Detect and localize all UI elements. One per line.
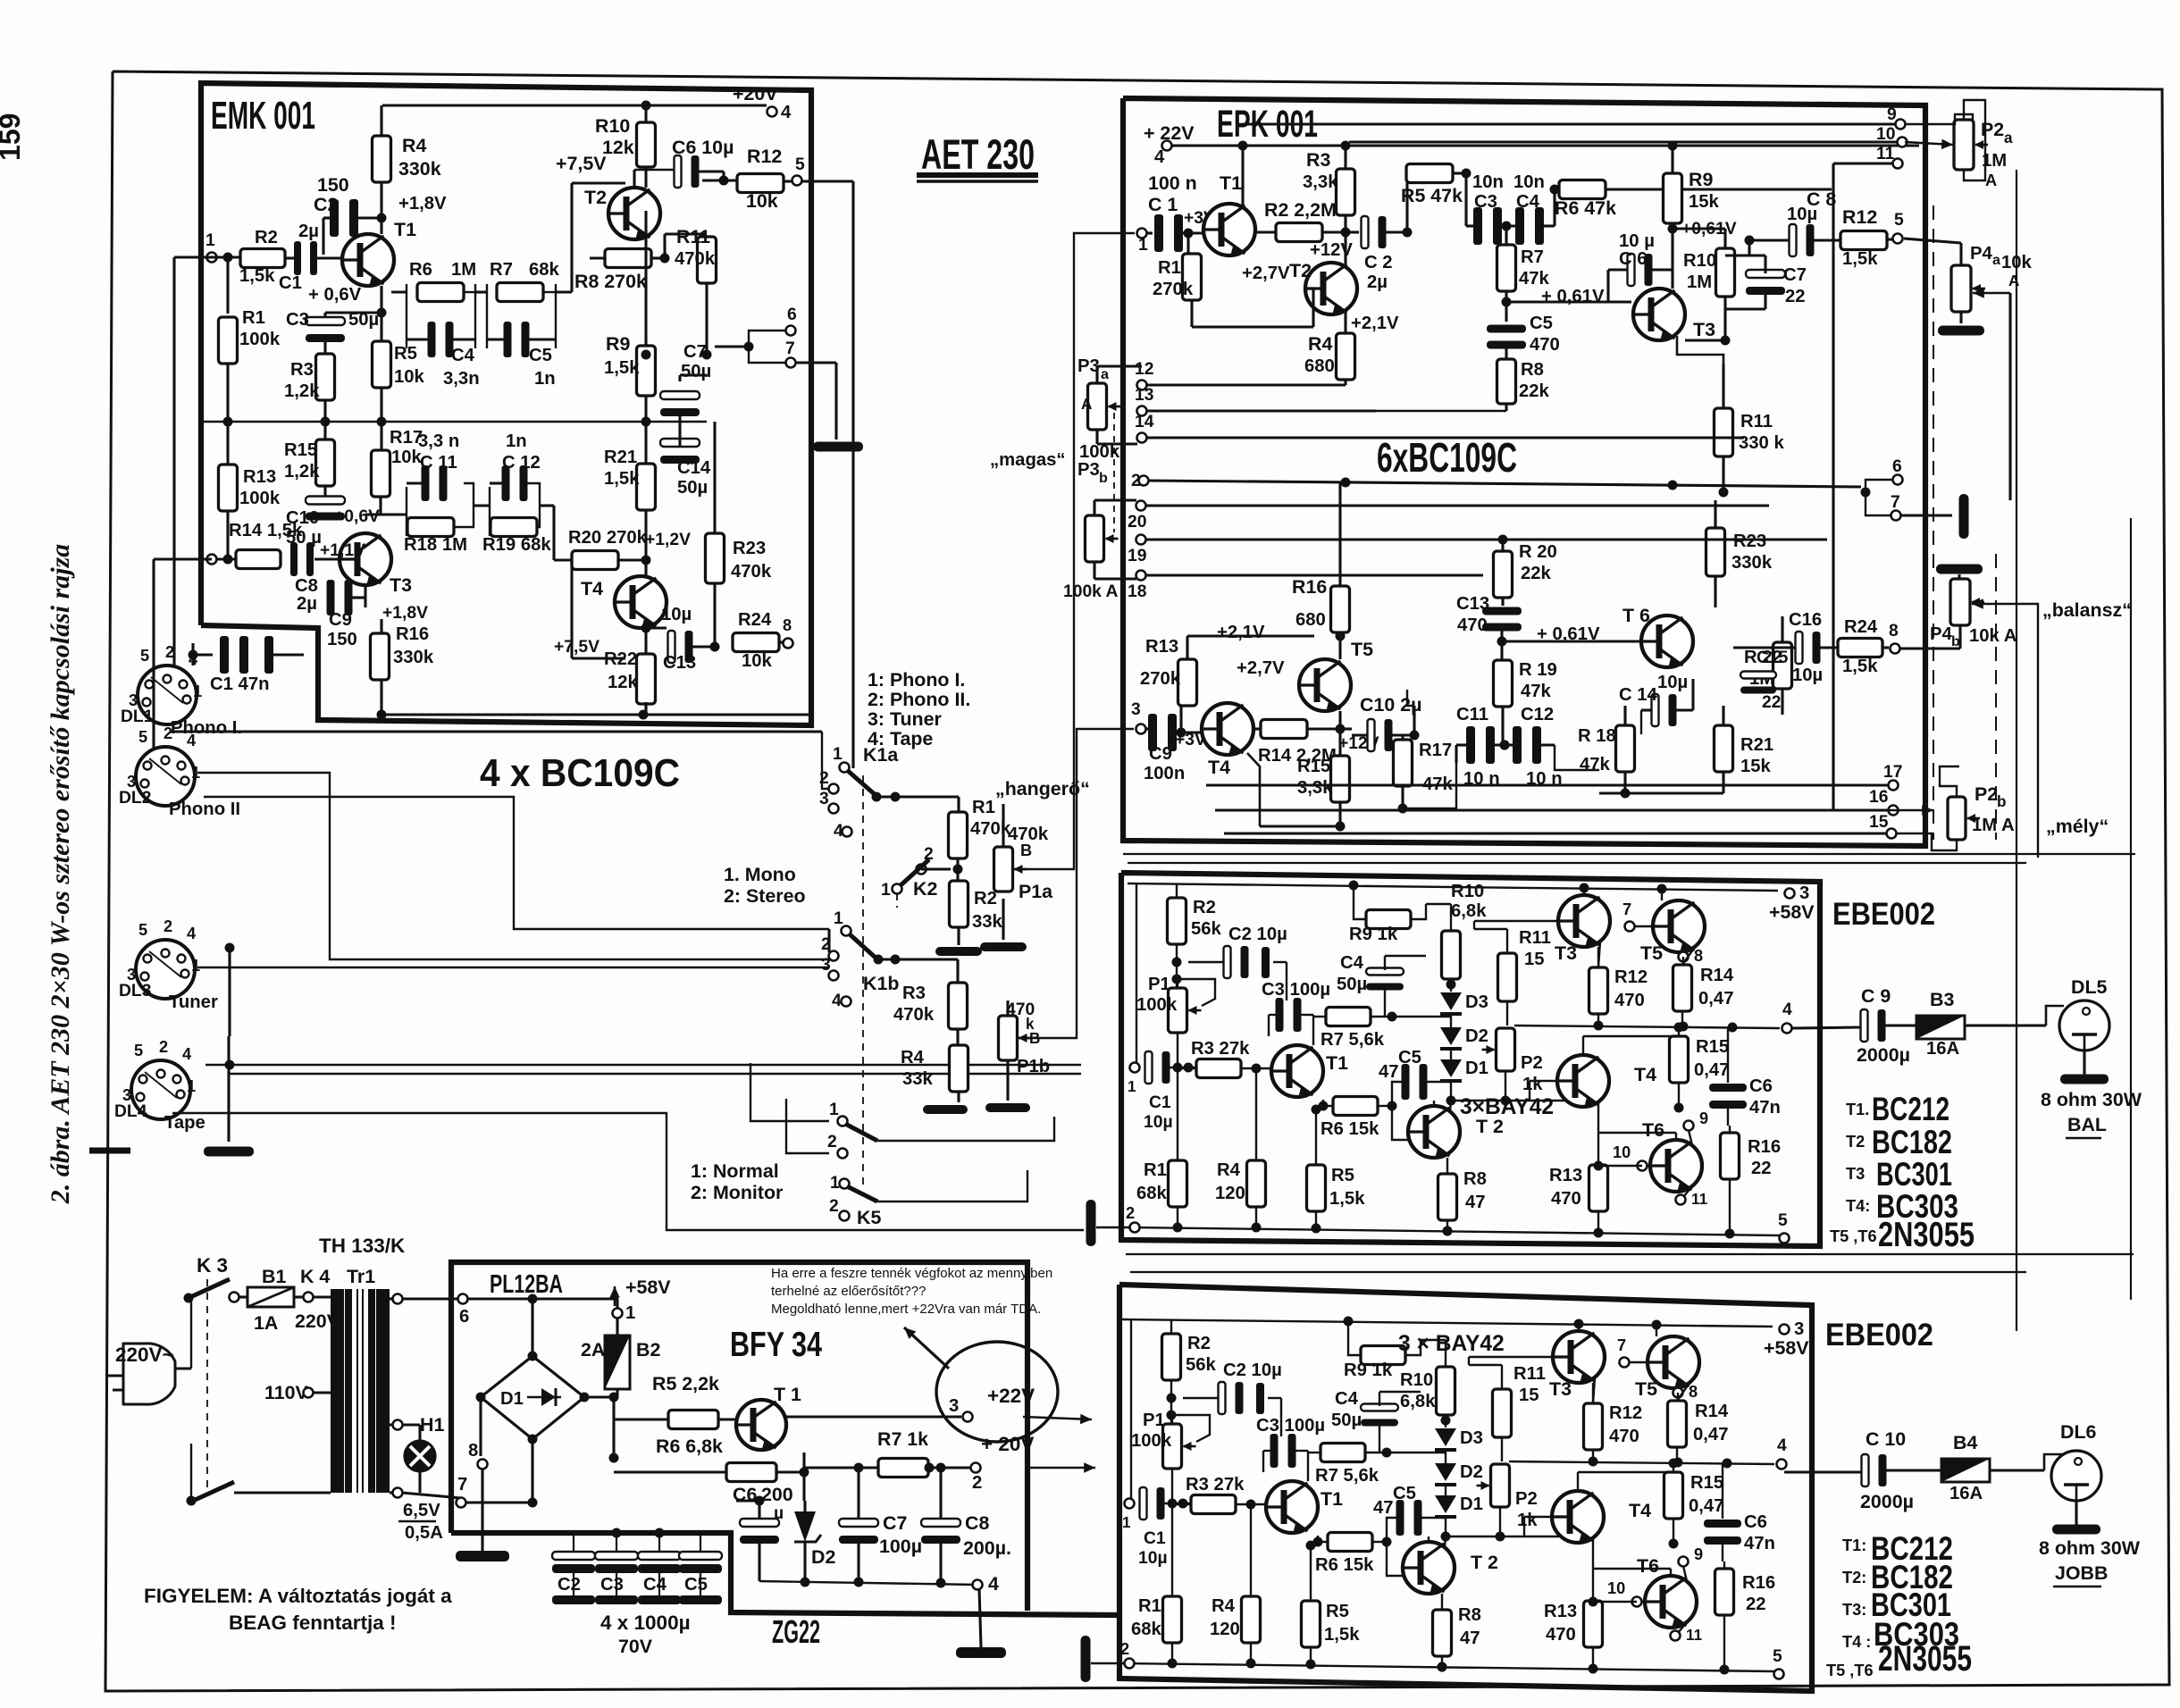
svg-text:5: 5 [140, 647, 149, 665]
svg-text:50µ: 50µ [677, 478, 708, 498]
svg-text:2000µ: 2000µ [1857, 1044, 1910, 1066]
svg-text:R7: R7 [1521, 247, 1544, 267]
svg-text:70V: 70V [618, 1636, 653, 1657]
svg-text:+ 0,6V: + 0,6V [308, 285, 362, 305]
svg-text:R5 47k: R5 47k [1401, 185, 1463, 206]
svg-text:1n: 1n [506, 431, 527, 451]
svg-text:3,3n: 3,3n [443, 369, 480, 389]
svg-text:330k: 330k [398, 158, 441, 180]
svg-text:0,47: 0,47 [1698, 989, 1733, 1009]
svg-text:b: b [1951, 633, 1960, 649]
svg-text:3: 3 [127, 773, 136, 791]
svg-text:3: 3 [1794, 1319, 1804, 1339]
svg-text:17: 17 [1883, 763, 1902, 782]
svg-text:2: 2 [1131, 472, 1141, 490]
svg-text:1n: 1n [534, 369, 556, 389]
svg-text:R2: R2 [974, 889, 997, 908]
svg-text:47: 47 [1379, 1062, 1399, 1082]
svg-text:330 k: 330 k [1739, 433, 1784, 453]
svg-text:10µ: 10µ [1138, 1549, 1168, 1568]
svg-text:R2: R2 [255, 228, 278, 247]
svg-text:+1,2V: +1,2V [645, 531, 691, 549]
svg-text:C 11: C 11 [420, 453, 457, 473]
svg-text:R13: R13 [1549, 1166, 1582, 1185]
svg-text:T3: T3 [1846, 1165, 1865, 1183]
svg-text:T3: T3 [1555, 942, 1577, 964]
svg-text:470: 470 [1609, 1427, 1639, 1446]
svg-text:R20 270k: R20 270k [568, 528, 648, 548]
svg-text:R4: R4 [901, 1048, 925, 1067]
svg-text:1: 1 [193, 682, 202, 700]
svg-text:R9: R9 [606, 333, 630, 355]
svg-text:R8: R8 [1521, 360, 1544, 380]
svg-text:C 10: C 10 [1866, 1428, 1906, 1450]
svg-text:D1: D1 [1465, 1059, 1488, 1078]
svg-text:R15: R15 [284, 440, 317, 460]
svg-text:R9 1k: R9 1k [1344, 1361, 1393, 1380]
svg-text:4: 4 [182, 1045, 192, 1063]
svg-text:R21: R21 [1740, 735, 1773, 755]
svg-text:15k: 15k [1740, 757, 1772, 776]
svg-text:B1: B1 [262, 1266, 286, 1287]
svg-text:R19 68k: R19 68k [482, 535, 551, 555]
svg-text:1,5k: 1,5k [239, 266, 275, 286]
svg-text:1: 1 [833, 745, 843, 764]
svg-text:12: 12 [1135, 360, 1153, 379]
svg-text:C3: C3 [286, 310, 309, 330]
svg-text:T5: T5 [1351, 639, 1373, 660]
svg-text:47: 47 [1465, 1193, 1486, 1212]
svg-text:R3: R3 [290, 360, 314, 380]
svg-text:100µ: 100µ [879, 1536, 922, 1557]
svg-text:470k: 470k [675, 249, 716, 269]
svg-text:a: a [1992, 252, 2001, 268]
svg-text:2: 2 [829, 1197, 839, 1216]
svg-text:68k: 68k [1131, 1620, 1162, 1639]
svg-text:T2: T2 [1289, 260, 1312, 281]
svg-text:2: 2 [163, 917, 172, 935]
svg-text:R 19: R 19 [1519, 660, 1557, 680]
svg-text:R7 5,6k: R7 5,6k [1315, 1466, 1379, 1486]
svg-text:BC212: BC212 [1872, 1090, 1949, 1127]
svg-text:BAL: BAL [2067, 1114, 2107, 1135]
svg-text:4 x 1000µ: 4 x 1000µ [600, 1612, 691, 1634]
svg-text:Ha erre a feszre tennék végfok: Ha erre a feszre tennék végfokot az menn… [771, 1266, 1052, 1281]
svg-text:10k: 10k [742, 651, 773, 671]
svg-text:15k: 15k [1689, 192, 1720, 212]
svg-text:DL5: DL5 [2071, 976, 2108, 998]
svg-text:+58V: +58V [1769, 901, 1815, 923]
svg-text:T4:: T4: [1846, 1197, 1870, 1215]
svg-text:B: B [1020, 841, 1032, 859]
svg-text:D2: D2 [1465, 1026, 1488, 1046]
svg-text:2: 2 [163, 724, 172, 742]
svg-text:C10: C10 [286, 508, 319, 528]
svg-text:68k: 68k [1136, 1184, 1168, 1203]
svg-text:C7: C7 [683, 342, 707, 362]
svg-text:T4: T4 [1629, 1500, 1651, 1521]
svg-text:R6: R6 [409, 260, 432, 280]
svg-text:3: 3 [949, 1396, 959, 1416]
svg-text:a: a [2004, 130, 2013, 147]
svg-text:9: 9 [1694, 1545, 1703, 1563]
svg-text:+7,5V: +7,5V [554, 638, 599, 657]
svg-text:2000µ: 2000µ [1860, 1491, 1914, 1512]
svg-text:C 8: C 8 [1807, 188, 1836, 210]
svg-text:22: 22 [1746, 1595, 1766, 1614]
svg-text:22: 22 [1762, 693, 1781, 712]
svg-text:R11: R11 [1519, 928, 1551, 948]
svg-text:R18 1M: R18 1M [404, 535, 467, 555]
svg-text:T5 ,T6: T5 ,T6 [1830, 1227, 1877, 1245]
svg-text:8: 8 [1689, 1383, 1698, 1401]
svg-text:EMK 001: EMK 001 [211, 94, 315, 138]
svg-text:D2: D2 [1460, 1462, 1483, 1482]
svg-text:+1,8V: +1,8V [382, 604, 428, 623]
svg-text:R6 15k: R6 15k [1321, 1119, 1379, 1139]
svg-text:2: 2 [827, 1133, 837, 1151]
svg-text:12k: 12k [608, 673, 639, 692]
svg-text:22k: 22k [1519, 381, 1550, 401]
svg-text:50µ: 50µ [1331, 1411, 1362, 1430]
svg-text:18: 18 [1128, 582, 1147, 601]
svg-text:0,47: 0,47 [1693, 1425, 1728, 1444]
svg-text:P1: P1 [1148, 975, 1170, 994]
svg-text:10µ: 10µ [1144, 1113, 1173, 1132]
svg-text:C4: C4 [1340, 953, 1364, 973]
svg-text:2: 2 [159, 1038, 168, 1056]
svg-text:T3:: T3: [1842, 1601, 1866, 1619]
svg-text:DL1: DL1 [121, 707, 154, 726]
svg-text:1M: 1M [1982, 151, 2007, 171]
svg-text:C 2: C 2 [1364, 253, 1393, 272]
svg-text:+22V: +22V [987, 1385, 1035, 1407]
svg-text:100k A: 100k A [1063, 582, 1119, 601]
svg-text:R13: R13 [1544, 1602, 1577, 1621]
svg-text:C14: C14 [677, 458, 711, 478]
svg-text:2: Monitor: 2: Monitor [691, 1182, 783, 1203]
svg-text:7: 7 [1617, 1336, 1626, 1354]
svg-text:T6: T6 [1642, 1119, 1664, 1141]
svg-text:R8: R8 [1458, 1605, 1481, 1625]
svg-text:T1: T1 [1321, 1488, 1343, 1510]
svg-text:12k: 12k [602, 137, 634, 158]
svg-text:1,2k: 1,2k [284, 381, 320, 401]
svg-text:+1,1V: +1,1V [320, 541, 365, 560]
svg-text:+ 0,61V: + 0,61V [1541, 287, 1605, 306]
svg-text:2: 2 [1126, 1204, 1135, 1222]
svg-text:R12: R12 [1842, 206, 1877, 228]
svg-text:11: 11 [1876, 145, 1895, 163]
svg-text:10µ: 10µ [661, 605, 692, 624]
svg-text:AET 230: AET 230 [921, 130, 1035, 178]
svg-text:R10: R10 [1400, 1370, 1433, 1390]
svg-text:R1: R1 [1138, 1596, 1161, 1616]
svg-text:+20V: +20V [733, 83, 778, 105]
svg-text:K 4: K 4 [300, 1266, 330, 1287]
svg-text:C 6: C 6 [1619, 249, 1648, 269]
svg-text:D3: D3 [1465, 992, 1488, 1012]
svg-text:R16: R16 [1292, 576, 1327, 598]
svg-text:6,5V: 6,5V [403, 1501, 440, 1520]
svg-text:DL6: DL6 [2060, 1421, 2097, 1443]
svg-text:4: 4 [781, 103, 792, 122]
svg-text:R4: R4 [1308, 333, 1332, 355]
svg-text:19: 19 [1128, 547, 1146, 565]
svg-text:H1: H1 [420, 1414, 444, 1436]
svg-text:2A: 2A [581, 1339, 605, 1361]
svg-text:2N3055: 2N3055 [1878, 1639, 1972, 1679]
svg-text:T1: T1 [1326, 1052, 1348, 1074]
svg-text:C1: C1 [1144, 1529, 1166, 1548]
svg-text:R8 270k: R8 270k [574, 271, 647, 292]
svg-text:1M: 1M [1687, 272, 1712, 292]
svg-text:BEAG fenntartja !: BEAG fenntartja ! [229, 1612, 397, 1634]
svg-text:+0,6V: +0,6V [334, 507, 380, 526]
svg-text:1: 1 [830, 1174, 840, 1193]
svg-text:10µ: 10µ [1792, 666, 1823, 685]
svg-text:R5 2,2k: R5 2,2k [652, 1373, 719, 1394]
svg-text:C16: C16 [1789, 610, 1822, 630]
svg-text:680: 680 [1304, 356, 1335, 376]
svg-text:7: 7 [1891, 493, 1900, 512]
svg-text:1: Normal: 1: Normal [691, 1160, 779, 1182]
svg-text:D2: D2 [811, 1546, 835, 1568]
svg-text:P4: P4 [1970, 244, 1993, 264]
svg-text:5: 5 [134, 1042, 143, 1059]
svg-text:R16: R16 [1742, 1573, 1775, 1593]
svg-text:Phono II: Phono II [169, 800, 240, 819]
svg-text:150: 150 [317, 174, 349, 196]
svg-text:R15: R15 [1696, 1037, 1729, 1057]
svg-text:R15: R15 [1297, 757, 1330, 776]
svg-text:R 20: R 20 [1519, 542, 1557, 562]
svg-text:R24: R24 [1844, 617, 1878, 637]
svg-text:159: 159 [0, 113, 26, 161]
svg-text:BFY 34: BFY 34 [730, 1326, 822, 1364]
svg-text:D1: D1 [1460, 1494, 1483, 1514]
svg-text:T3: T3 [390, 574, 412, 596]
svg-text:R4: R4 [1212, 1596, 1236, 1616]
svg-text:ZG22: ZG22 [772, 1613, 820, 1650]
svg-text:10n: 10n [1472, 172, 1504, 192]
svg-text:1: 1 [187, 1077, 196, 1095]
svg-text:4: 4 [988, 1573, 999, 1595]
svg-text:C8: C8 [295, 576, 318, 596]
svg-text:8: 8 [468, 1441, 478, 1461]
svg-text:10 µ: 10 µ [1619, 231, 1655, 251]
svg-text:b: b [1099, 470, 1108, 486]
svg-text:15: 15 [1524, 950, 1545, 969]
svg-text:2N3055: 2N3055 [1878, 1216, 1975, 1254]
svg-text:P2: P2 [1981, 119, 2004, 140]
svg-text:10: 10 [1607, 1579, 1625, 1597]
svg-text:2µ: 2µ [297, 594, 317, 614]
svg-text:1,5k: 1,5k [1329, 1189, 1365, 1209]
svg-text:2µ: 2µ [298, 222, 319, 241]
svg-text:8: 8 [1889, 622, 1899, 640]
svg-text:FIGYELEM: A változtatás jogá: FIGYELEM: A változtatás jogát a [144, 1585, 452, 1607]
svg-text:C2 10µ: C2 10µ [1228, 925, 1287, 944]
svg-text:R9: R9 [1689, 169, 1713, 190]
svg-text:7: 7 [1622, 900, 1631, 918]
svg-text:C3 100µ: C3 100µ [1256, 1416, 1325, 1436]
svg-text:470: 470 [1614, 991, 1645, 1010]
svg-text:5: 5 [1894, 211, 1904, 230]
svg-text:R3: R3 [1306, 149, 1330, 171]
svg-text:47k: 47k [1521, 682, 1552, 701]
svg-text:R5: R5 [1326, 1602, 1349, 1621]
svg-text:C3: C3 [600, 1575, 624, 1595]
svg-text:1,5k: 1,5k [1324, 1625, 1360, 1645]
svg-text:4: 4 [1782, 1001, 1792, 1019]
svg-text:R13: R13 [243, 467, 276, 487]
svg-text:C5: C5 [1398, 1048, 1421, 1067]
svg-text:R2 2,2M: R2 2,2M [1264, 199, 1337, 221]
svg-text:P2: P2 [1975, 783, 1998, 805]
svg-text:P1a: P1a [1019, 881, 1053, 902]
svg-text:R 18: R 18 [1578, 726, 1616, 746]
svg-text:8 ohm 30W: 8 ohm 30W [2041, 1089, 2142, 1110]
svg-text:R7: R7 [490, 260, 513, 280]
svg-text:1: 1 [1128, 1078, 1136, 1095]
svg-text:R3 27k: R3 27k [1186, 1475, 1245, 1494]
svg-text:47: 47 [1373, 1498, 1394, 1518]
svg-text:R1: R1 [1158, 258, 1181, 278]
svg-text:330k: 330k [393, 648, 434, 667]
svg-text:C1 47n: C1 47n [210, 674, 270, 694]
svg-text:T1: T1 [394, 219, 416, 240]
svg-text:R5: R5 [1331, 1166, 1354, 1185]
svg-text:C1: C1 [1149, 1093, 1171, 1112]
svg-text:56k: 56k [1186, 1355, 1217, 1375]
svg-text:R12: R12 [1614, 967, 1648, 987]
svg-text:T5: T5 [1640, 942, 1663, 964]
svg-text:3: Tuner: 3: Tuner [868, 708, 942, 730]
svg-text:2: 2 [972, 1473, 982, 1493]
svg-text:B3: B3 [1930, 989, 1954, 1010]
svg-text:470k: 470k [893, 1005, 935, 1025]
svg-text:1k: 1k [1517, 1511, 1538, 1530]
svg-text:1: 1 [625, 1303, 635, 1323]
svg-text:R21: R21 [604, 448, 637, 467]
svg-text:1,5k: 1,5k [604, 358, 640, 378]
svg-text:22: 22 [1751, 1159, 1772, 1178]
svg-text:2. ábra. AET 230 2×30 W-os szt: 2. ábra. AET 230 2×30 W-os sztereo erősí… [46, 544, 75, 1205]
svg-text:100n: 100n [1144, 764, 1185, 783]
svg-text:T2:: T2: [1842, 1569, 1866, 1587]
svg-text:R4: R4 [1217, 1160, 1241, 1180]
svg-text:11: 11 [1691, 1191, 1708, 1208]
svg-text:15: 15 [1869, 813, 1889, 832]
svg-text:C6: C6 [1744, 1512, 1767, 1532]
svg-text:D3: D3 [1460, 1428, 1483, 1448]
svg-text:1. Mono: 1. Mono [724, 864, 796, 885]
svg-text:DL3: DL3 [119, 982, 152, 1001]
svg-text:470: 470 [1530, 335, 1560, 355]
svg-text:0,47: 0,47 [1694, 1060, 1729, 1080]
svg-text:C2: C2 [558, 1575, 581, 1595]
svg-text:C7: C7 [1783, 265, 1807, 285]
svg-text:R12: R12 [1609, 1403, 1642, 1423]
svg-text:R11: R11 [676, 226, 710, 247]
svg-text:47k: 47k [1519, 269, 1550, 289]
svg-text:R16: R16 [1748, 1137, 1781, 1157]
svg-text:+2,1V: +2,1V [1351, 314, 1399, 333]
svg-text:C13: C13 [1456, 594, 1489, 614]
svg-text:6: 6 [459, 1307, 469, 1327]
svg-text:3 × BAY42: 3 × BAY42 [1398, 1332, 1505, 1356]
svg-text:470: 470 [1457, 615, 1488, 635]
svg-text:2µ: 2µ [1367, 272, 1388, 292]
svg-text:1A: 1A [254, 1312, 278, 1334]
svg-text:1,5k: 1,5k [1842, 657, 1878, 676]
svg-text:R10: R10 [1451, 882, 1484, 901]
svg-text:T1:: T1: [1842, 1536, 1866, 1554]
svg-text:C2 10µ: C2 10µ [1223, 1361, 1282, 1380]
svg-text:470: 470 [1546, 1625, 1576, 1645]
svg-text:b: b [1997, 793, 2006, 810]
svg-text:R15: R15 [1690, 1473, 1723, 1493]
svg-text:5: 5 [1778, 1211, 1788, 1230]
svg-text:16: 16 [1869, 788, 1889, 807]
svg-text:C11: C11 [1456, 705, 1488, 724]
svg-text:T4: T4 [581, 578, 603, 599]
svg-text:8: 8 [1694, 947, 1703, 965]
svg-text:0,47: 0,47 [1689, 1496, 1723, 1516]
svg-text:T 2: T 2 [1476, 1116, 1504, 1137]
svg-text:68k: 68k [529, 260, 560, 280]
svg-text:R10: R10 [1683, 251, 1716, 271]
svg-text:5: 5 [795, 155, 805, 174]
svg-text:T3: T3 [1693, 319, 1715, 340]
svg-text:C4: C4 [1335, 1389, 1359, 1409]
svg-text:3,3 n: 3,3 n [418, 431, 459, 451]
svg-text:330k: 330k [1731, 553, 1773, 573]
svg-text:3,3k: 3,3k [1303, 172, 1338, 192]
svg-text:5: 5 [138, 921, 147, 939]
svg-text:680: 680 [1295, 610, 1326, 630]
svg-text:P3: P3 [1077, 460, 1100, 480]
svg-text:15: 15 [1519, 1386, 1539, 1405]
svg-text:T5 ,T6: T5 ,T6 [1826, 1662, 1874, 1679]
svg-text:C5: C5 [1393, 1484, 1416, 1503]
svg-text:4: 4 [187, 732, 197, 749]
svg-text:a: a [1101, 366, 1110, 382]
svg-text:1: 1 [829, 1101, 839, 1119]
svg-text:4: 4 [832, 992, 842, 1010]
svg-text:JOBB: JOBB [2055, 1562, 2108, 1584]
svg-text:R10: R10 [595, 115, 630, 137]
svg-text:3,3k: 3,3k [1297, 778, 1333, 798]
svg-text:22k: 22k [1521, 564, 1552, 583]
svg-text:T4: T4 [1208, 757, 1230, 778]
svg-text:C5: C5 [529, 346, 552, 365]
svg-text:B4: B4 [1953, 1432, 1977, 1453]
svg-text:120: 120 [1215, 1184, 1245, 1203]
svg-text:C8: C8 [965, 1512, 989, 1534]
svg-text:3: 3 [1799, 883, 1809, 903]
svg-text:47n: 47n [1749, 1098, 1781, 1118]
svg-text:C2: C2 [314, 194, 338, 215]
svg-text:1: 1 [191, 957, 200, 975]
svg-text:+2,1V: +2,1V [1217, 623, 1265, 642]
svg-text:R6 15k: R6 15k [1315, 1555, 1374, 1575]
svg-text:R4: R4 [402, 135, 426, 156]
svg-text:1: 1 [881, 881, 891, 900]
svg-text:R11: R11 [1513, 1364, 1546, 1384]
svg-text:100k: 100k [239, 330, 281, 349]
